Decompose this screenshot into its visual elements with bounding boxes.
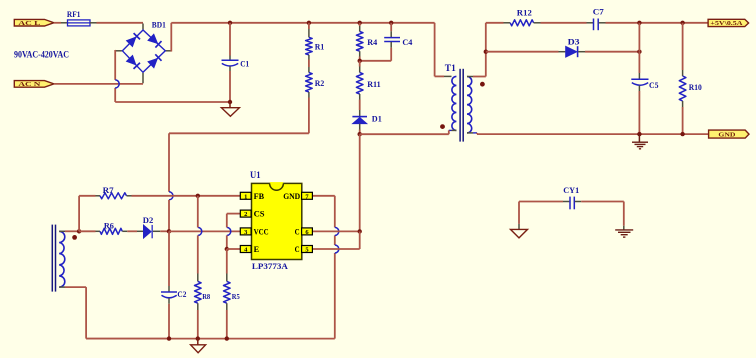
port GND	[709, 130, 749, 138]
ground under C1	[229, 102, 231, 108]
transformer T1 auxiliary winding	[59, 231, 65, 287]
svg-text:90VAC-420VAC: 90VAC-420VAC	[14, 50, 69, 60]
svg-text:R8: R8	[202, 292, 210, 301]
junction R5 bottom rail	[225, 336, 229, 340]
resistor R4	[359, 23, 361, 26]
svg-text:AC L: AC L	[18, 20, 40, 27]
junction C1 bottom	[228, 100, 232, 104]
wire hop GND vertical over pin6 row	[335, 227, 339, 235]
polarity dot T1 secondary	[480, 82, 485, 87]
ground left of CY1	[511, 229, 528, 238]
wire R6 row from aux	[79, 230, 95, 232]
wire R12 to C7	[541, 22, 587, 24]
svg-text:RF1: RF1	[67, 9, 81, 19]
wire pin 6 row	[312, 230, 360, 232]
transformer T1 secondary winding	[467, 77, 472, 133]
junction R8 bottom rail	[196, 336, 200, 340]
resistor R2	[308, 67, 310, 73]
wire ground rail to C1	[115, 101, 230, 103]
svg-text:C1: C1	[240, 59, 249, 69]
wire D3 to C5 node	[585, 51, 639, 53]
junction R10 bottom	[680, 132, 684, 136]
resistor R7	[96, 195, 101, 197]
svg-text:VCC: VCC	[254, 227, 269, 236]
junction CS / E row	[225, 247, 229, 251]
wire rail down to D3 row	[638, 23, 640, 52]
wire AC L to fuse RF1	[54, 22, 61, 24]
ground under C5	[638, 134, 640, 142]
transformer T1 secondary top lead	[467, 76, 473, 78]
svg-text:C4: C4	[402, 37, 413, 47]
junction C2 bottom rail	[167, 336, 171, 340]
wire D1 node to primary bottom	[360, 133, 449, 135]
wire CY1 right to ground	[581, 201, 624, 203]
wire D1 node down to pin 6 row	[359, 134, 361, 231]
svg-text:C: C	[295, 227, 300, 236]
pin 4 (E)	[240, 246, 251, 253]
wire hop R8 vertical over VCC row	[198, 227, 202, 235]
wire top rail	[173, 22, 435, 24]
diode D1	[359, 100, 361, 111]
svg-text:R11: R11	[367, 79, 381, 89]
transformer T1 core	[459, 69, 461, 142]
transformer T1 primary bottom lead	[452, 129, 457, 131]
wire RF1 to bridge top vertex	[97, 22, 144, 24]
junction R1 top	[307, 21, 311, 25]
wire R8 vertical upper	[197, 196, 199, 228]
svg-text:C: C	[295, 245, 300, 254]
svg-text:LP3773A: LP3773A	[252, 261, 289, 271]
junction D1 drain node	[358, 132, 362, 136]
svg-text:D1: D1	[372, 114, 382, 124]
wire top rail corner to primary top	[434, 23, 436, 77]
svg-text:T1: T1	[445, 63, 457, 73]
svg-text:D3: D3	[568, 37, 580, 47]
junction D3 row / C5 top	[637, 50, 641, 54]
wire D2 to VCC node	[160, 230, 169, 232]
ground main rail	[197, 339, 199, 345]
capacitor C5	[638, 52, 640, 73]
bridge rectifier BD1	[142, 24, 144, 30]
capacitor C4	[390, 23, 392, 31]
diode D2	[137, 230, 143, 232]
wire VCC-node vertical to D2 cathode	[168, 200, 170, 232]
svg-text:R12: R12	[517, 8, 532, 18]
resistor R11	[359, 61, 361, 67]
pin 7 (GND)	[302, 192, 313, 199]
svg-text:BD1: BD1	[152, 20, 166, 30]
wire R2 bottom to VCC node	[308, 98, 310, 134]
svg-text:R5: R5	[232, 292, 240, 301]
svg-text:GND: GND	[718, 131, 736, 138]
junction R4 top	[358, 21, 362, 25]
wire CY1 left to ground	[519, 201, 563, 203]
svg-text:GND: GND	[283, 192, 300, 201]
aux winding bottom lead	[59, 286, 65, 288]
svg-text:E: E	[254, 245, 260, 254]
diode D3	[559, 51, 566, 53]
wire pin 5 row	[312, 248, 360, 250]
junction C5 bottom / ground	[637, 132, 641, 136]
ground right of CY1	[615, 229, 633, 231]
svg-text:FB: FB	[254, 192, 265, 201]
wire E row to pin 4	[227, 248, 241, 250]
wire hop CS vertical over VCC row	[227, 227, 231, 235]
resistor R6	[96, 230, 101, 232]
resistor R12	[504, 22, 511, 24]
junction C7 right / rail	[637, 21, 641, 25]
svg-text:R2: R2	[315, 78, 325, 88]
port AC N	[14, 81, 54, 88]
wire bottom ground rail	[86, 338, 335, 340]
wire AC N to bridge bottom vertex	[54, 83, 143, 85]
junction FB row / R8 top	[196, 194, 200, 198]
wire pin 7 GND down	[312, 195, 335, 197]
wire hop GND vertical over pin5 row	[335, 245, 339, 253]
svg-text:U1: U1	[250, 170, 261, 180]
polarity dot aux winding	[72, 235, 77, 240]
svg-text:R4: R4	[367, 37, 378, 47]
resistor R10	[682, 23, 684, 70]
wire CS pin row	[227, 213, 241, 215]
polarity dot T1 primary	[440, 124, 445, 129]
port AC L	[14, 19, 54, 26]
resistor R1	[308, 23, 310, 29]
junction C4 top	[389, 21, 393, 25]
wire C7 to +5V rail	[606, 22, 709, 24]
transformer T1 auxiliary core	[51, 225, 53, 292]
wire VCC node down to C2	[168, 231, 170, 286]
wire VCC row to pin 3	[169, 230, 241, 232]
transformer T1 secondary bottom lead	[467, 132, 473, 134]
pin 5 (C)	[302, 246, 313, 253]
svg-text:D2: D2	[143, 215, 154, 225]
pin 1 (FB)	[240, 192, 251, 199]
svg-text:1: 1	[244, 193, 247, 200]
aux winding top lead	[59, 230, 65, 232]
pin 6 (C)	[302, 228, 313, 235]
resistor R5	[226, 249, 228, 274]
transformer T1 primary winding	[452, 76, 457, 130]
svg-text:CY1: CY1	[563, 185, 579, 195]
wire hop FB row over VCC-node vertical	[169, 192, 173, 200]
svg-text:CS: CS	[254, 210, 266, 219]
svg-text:AC N: AC N	[18, 81, 41, 88]
capacitor C2	[161, 291, 177, 293]
wire R6 to D2	[127, 230, 137, 232]
junction pin6 row / drain vertical	[358, 229, 362, 233]
wire aux riser to R7	[78, 196, 80, 232]
capacitor C1	[229, 23, 231, 56]
wire bridge plus riser	[170, 50, 173, 52]
IC U1 LP3773A body	[252, 183, 302, 259]
wire hop AC N over bridge-minus	[115, 80, 119, 88]
svg-text:C5: C5	[649, 80, 659, 90]
junction R4/C4 bottom	[358, 59, 362, 63]
junction aux top / riser	[77, 229, 81, 233]
wire D3 row left	[486, 51, 559, 53]
wire bridge minus down-left	[114, 50, 117, 52]
svg-text:R10: R10	[689, 82, 702, 92]
capacitor C7	[587, 22, 594, 24]
junction R10 top	[680, 21, 684, 25]
resistor R8	[197, 235, 199, 273]
junction D2 cathode / VCC node	[167, 229, 171, 233]
pin 2 (CS)	[240, 210, 251, 217]
svg-text:R6: R6	[104, 220, 114, 230]
junction C1 top	[228, 21, 232, 25]
fuse RF1	[61, 22, 68, 24]
svg-text:R7: R7	[103, 185, 115, 195]
wire FB row	[132, 195, 241, 197]
capacitor CY1	[563, 201, 569, 203]
wire R1 to R2	[308, 60, 310, 68]
svg-text:2: 2	[244, 211, 247, 218]
wire CS vertical lower	[226, 235, 228, 249]
pin 3 (VCC)	[240, 228, 251, 235]
wire secondary top riser	[485, 23, 487, 77]
junction secondary riser / D3 row	[484, 50, 488, 54]
port +5V/0.5A	[708, 19, 749, 26]
svg-text:+5V\0.5A: +5V\0.5A	[710, 21, 743, 27]
svg-text:C2: C2	[177, 289, 186, 299]
svg-text:R1: R1	[315, 41, 325, 51]
svg-text:C7: C7	[593, 7, 605, 17]
